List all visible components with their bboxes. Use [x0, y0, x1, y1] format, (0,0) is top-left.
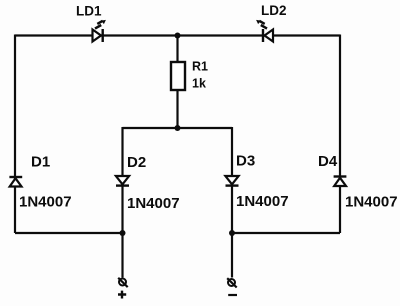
label 1N4007 (D1)	[19, 194, 72, 211]
label 1N4007 (D4)	[345, 194, 398, 211]
label 1k	[192, 77, 206, 91]
terminal + (plug)	[118, 278, 128, 287]
wire D3 branch vertical	[231, 127, 233, 278]
LED LD1	[93, 20, 106, 42]
wire mid horizontal	[123, 127, 233, 129]
node mid junction (R1 bottom)	[175, 125, 181, 131]
svg-text:D1: D1	[31, 153, 50, 170]
label 1N4007 (D2)	[127, 195, 180, 212]
wire bottom-left horizontal	[15, 232, 123, 234]
svg-text:1k: 1k	[192, 77, 206, 91]
label R1	[192, 60, 208, 74]
diode D2	[116, 176, 129, 186]
svg-text:D4: D4	[318, 153, 338, 170]
svg-text:1N4007: 1N4007	[19, 194, 72, 211]
resistor R1	[171, 62, 185, 90]
svg-text:R1: R1	[192, 60, 208, 74]
svg-text:LD1: LD1	[76, 3, 102, 18]
svg-text:D2: D2	[127, 154, 146, 171]
node bottom-right junction	[229, 230, 235, 236]
svg-text:1N4007: 1N4007	[345, 194, 398, 211]
svg-text:1N4007: 1N4007	[127, 195, 180, 212]
label D3	[236, 153, 255, 170]
label D1	[31, 153, 50, 170]
label 1N4007 (D3)	[236, 193, 289, 210]
label D4	[318, 153, 338, 170]
wire bottom-right horizontal	[232, 232, 340, 234]
terminal − (plug)	[227, 278, 237, 287]
svg-text:LD2: LD2	[261, 3, 287, 18]
label −	[228, 294, 237, 296]
diode D4	[334, 177, 347, 187]
svg-text:D3: D3	[236, 153, 255, 170]
wire center vertical (top node to mid node)	[176, 36, 178, 129]
wire D2 branch vertical	[121, 127, 123, 278]
diode D1	[9, 177, 22, 187]
label LD2	[261, 3, 287, 18]
svg-text:1N4007: 1N4007	[236, 193, 289, 210]
node top center junction	[175, 33, 181, 39]
label LD1	[76, 3, 102, 18]
label D2	[127, 154, 146, 171]
wire right rail vertical	[339, 35, 341, 234]
label +	[118, 291, 126, 299]
wire left rail vertical	[14, 35, 16, 234]
wire top horizontal	[15, 34, 340, 36]
node bottom-left junction	[120, 230, 126, 236]
LED LD2	[256, 20, 273, 42]
diode D3	[225, 176, 238, 186]
